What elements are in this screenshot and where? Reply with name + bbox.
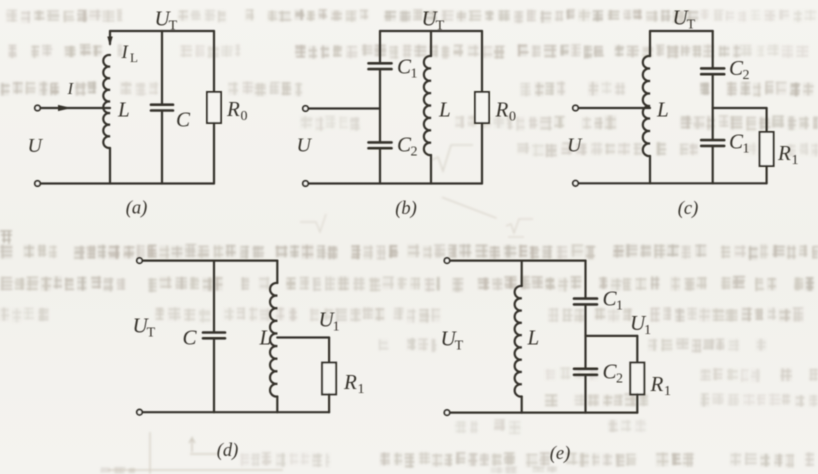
svg-text:2: 2 <box>411 145 418 160</box>
svg-text:0: 0 <box>509 110 516 125</box>
wire capacitor branch bottom (d) <box>213 338 215 412</box>
wire top node (d) <box>142 260 277 262</box>
svg-text:1: 1 <box>358 382 365 397</box>
terminal input top (c) <box>573 105 578 110</box>
svg-text:1: 1 <box>411 67 418 82</box>
input tap wire (b) <box>308 107 380 109</box>
svg-text:T: T <box>169 19 178 34</box>
wire C2 branch top (c) <box>712 31 714 68</box>
svg-text:(e): (e) <box>550 444 571 464</box>
resistor R0 (b) <box>475 92 489 123</box>
svg-text:1: 1 <box>664 384 671 399</box>
wire top node (e) <box>450 260 586 262</box>
terminal input bottom (a) <box>35 181 40 186</box>
wire inductor branch top (b) <box>430 31 432 56</box>
svg-text:R: R <box>650 372 664 396</box>
tap wire to R1 (d) <box>277 336 329 338</box>
svg-text:U: U <box>28 135 44 157</box>
wire R1 branch top (d) <box>328 338 330 363</box>
capacitor C2 (e) <box>574 367 597 370</box>
svg-text:L: L <box>656 98 669 122</box>
resistor R1 (d) <box>322 363 336 395</box>
wire resistor branch bottom (b) <box>481 123 483 184</box>
terminal input bottom (b) <box>303 181 308 186</box>
label L (b) <box>438 98 451 122</box>
svg-text:R: R <box>777 141 791 165</box>
label C1 (b) <box>397 55 418 82</box>
svg-text:U: U <box>297 135 313 157</box>
wire R1 branch bottom (d) <box>328 394 330 412</box>
svg-text:1: 1 <box>743 142 750 157</box>
wire capacitor branch bottom (a) <box>161 111 163 184</box>
svg-text:(b): (b) <box>395 199 417 219</box>
wire C2-C1 segment with tap node (c) <box>712 74 714 140</box>
label U (c) <box>567 135 583 157</box>
label R1 (c) <box>777 141 799 168</box>
svg-text:2: 2 <box>616 372 623 387</box>
wire R1 branch top (e) <box>636 336 638 363</box>
resistor R0 (a) <box>207 92 221 123</box>
wire inductor branch top (e) <box>521 261 523 286</box>
wire bottom node (a) <box>40 182 214 184</box>
label C2 (e) <box>603 360 624 387</box>
label UT (b) <box>422 7 445 34</box>
svg-text:C: C <box>183 326 198 350</box>
caption (c) <box>678 199 699 219</box>
wire inductor branch bottom (d) <box>276 397 278 413</box>
terminal input top (d) <box>137 258 142 263</box>
current arrow IL (a) <box>107 31 112 46</box>
wire bottom node (b) <box>308 182 482 184</box>
wire capacitor branch top (d) <box>213 261 215 332</box>
wire C1-C2 segment with tap (b) <box>379 70 381 142</box>
svg-text:R: R <box>343 370 357 394</box>
terminal input bottom (e) <box>444 410 449 415</box>
label R0 (a) <box>226 97 248 124</box>
label IL (a) <box>121 42 139 65</box>
capacitor C (a) <box>151 103 173 106</box>
wire bottom node (e) <box>450 412 638 414</box>
wire top node (c) <box>650 30 713 32</box>
label C1 (e) <box>603 287 624 314</box>
svg-text:1: 1 <box>333 320 340 335</box>
svg-text:I: I <box>67 79 75 98</box>
wire inductor branch bottom (e) <box>521 397 523 413</box>
wire C2 branch bottom (e) <box>584 375 586 413</box>
label R1 (e) <box>650 372 672 399</box>
label C2 (b) <box>397 133 418 160</box>
svg-text:T: T <box>436 19 445 34</box>
label U (a) <box>28 135 44 157</box>
wire C1 branch bottom (c) <box>712 146 714 183</box>
svg-text:L: L <box>438 98 451 122</box>
svg-text:U: U <box>567 135 583 157</box>
label UT (a) <box>155 7 178 34</box>
svg-text:(d): (d) <box>217 441 239 461</box>
wire capacitor branch top (a) <box>161 31 163 104</box>
svg-text:L: L <box>130 50 138 65</box>
svg-text:L: L <box>527 326 540 350</box>
wire resistor branch bottom (a) <box>213 123 215 184</box>
terminal input top (b) <box>303 106 308 111</box>
svg-text:T: T <box>147 326 156 341</box>
svg-text:I: I <box>121 42 130 63</box>
wire C1 branch top (e) <box>584 261 586 298</box>
svg-text:2: 2 <box>743 68 750 83</box>
wire bottom node (c) <box>578 182 767 184</box>
capacitor C1 (e) <box>574 297 597 300</box>
label U1 (e) <box>630 311 651 338</box>
label R1 (d) <box>343 370 365 397</box>
wire resistor branch top (a) <box>213 31 215 92</box>
svg-text:0: 0 <box>241 109 248 124</box>
label C1 (c) <box>729 130 750 157</box>
svg-text:(a): (a) <box>126 199 148 219</box>
svg-text:1: 1 <box>616 299 623 314</box>
wire inductor branch top (d) <box>276 261 278 283</box>
tap wire to R1 (e) <box>586 335 638 337</box>
svg-text:R: R <box>226 97 240 121</box>
wire C2 branch bottom (b) <box>379 148 381 183</box>
svg-text:1: 1 <box>792 153 799 168</box>
inductor L (a) <box>103 55 110 148</box>
caption (d) <box>217 441 239 461</box>
inductor L tapped (d) <box>270 283 277 397</box>
capacitor C2 (b) <box>369 141 392 144</box>
label C (a) <box>176 108 191 132</box>
wire bottom node (d) <box>142 411 329 413</box>
inductor L (b) <box>424 56 431 155</box>
wire top node (b) <box>380 30 482 32</box>
label U (b) <box>297 135 313 157</box>
svg-text:L: L <box>259 326 272 350</box>
svg-text:(c): (c) <box>678 199 699 219</box>
wire inductor branch bottom (c) <box>649 156 651 183</box>
caption (a) <box>126 199 148 219</box>
wire inductor bottom (a) <box>109 148 111 184</box>
capacitor C (d) <box>203 331 225 334</box>
capacitor C1 (b) <box>369 62 392 65</box>
terminal input bottom (d) <box>137 410 142 415</box>
label I (a) <box>67 79 75 98</box>
wire C1-C2 segment with tap node (e) <box>584 305 586 369</box>
wire inductor branch bottom (b) <box>430 155 432 184</box>
label L (c) <box>656 98 669 122</box>
terminal input top (a) <box>35 105 40 110</box>
capacitor C1 (c) <box>701 139 724 142</box>
svg-text:T: T <box>455 339 464 354</box>
svg-text:T: T <box>687 18 696 33</box>
label UT (d) <box>133 314 156 341</box>
svg-text:R: R <box>495 98 509 122</box>
wire R1 branch bottom (c) <box>765 166 767 183</box>
input wire (c) <box>578 107 650 109</box>
wire resistor branch top (b) <box>481 31 483 92</box>
terminal input top (e) <box>444 258 449 263</box>
label C (d) <box>183 326 198 350</box>
wire top node (a) <box>110 30 214 32</box>
wire C1 branch top (b) <box>379 31 381 63</box>
label L (e) <box>527 326 540 350</box>
capacitor C2 (c) <box>701 67 724 70</box>
label L (a) <box>117 98 130 122</box>
label UT (c) <box>673 6 696 33</box>
label L (d) <box>259 326 272 350</box>
inductor L (e) <box>515 286 522 397</box>
terminal input bottom (c) <box>573 181 578 186</box>
label U1 (d) <box>319 308 340 335</box>
svg-text:1: 1 <box>644 323 651 338</box>
resistor R1 (c) <box>760 132 774 166</box>
wire inductor branch top (c) <box>649 31 651 56</box>
label UT (e) <box>441 327 464 354</box>
wire R1 branch top (c) <box>765 108 767 132</box>
wire R1 branch bottom (e) <box>636 394 638 412</box>
label C2 (c) <box>729 56 750 83</box>
tap wire to R1 (c) <box>713 107 767 109</box>
caption (b) <box>395 199 417 219</box>
caption (e) <box>550 444 571 464</box>
svg-text:C: C <box>176 108 191 132</box>
input wire with current I (a) <box>40 105 110 111</box>
svg-text:L: L <box>117 98 130 122</box>
resistor R1 (e) <box>630 363 644 395</box>
label R0 (b) <box>495 98 517 125</box>
inductor L (c) <box>643 56 650 156</box>
